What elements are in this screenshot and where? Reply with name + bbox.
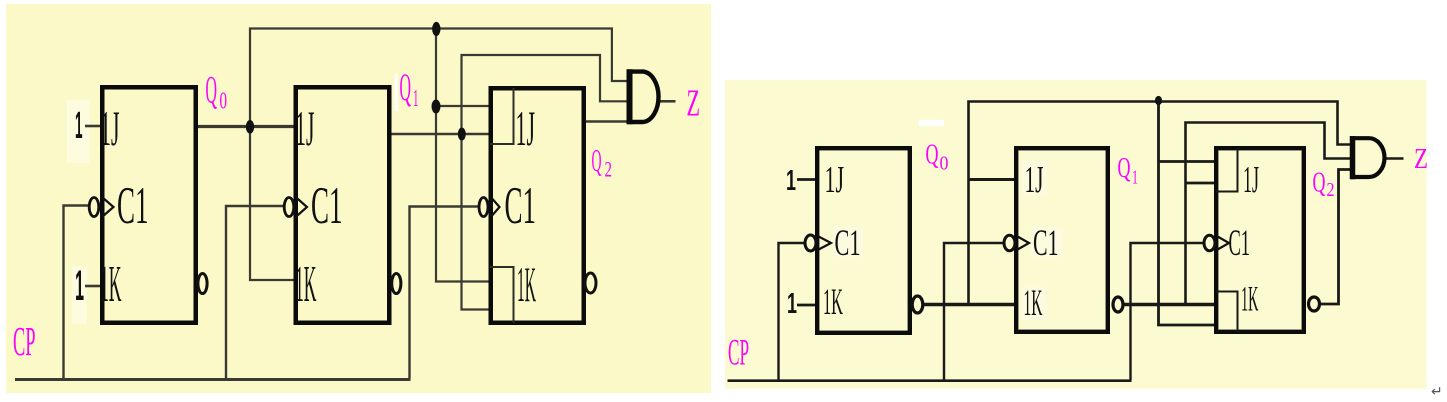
svg-text:1: 1 [413, 86, 419, 112]
svg-text:C1: C1 [505, 177, 537, 235]
junction dot on top bus at line A [432, 22, 440, 36]
svg-text:Q: Q [1118, 152, 1131, 184]
wire: vertical 2 branch to FF3 1J lower [1186, 182, 1217, 185]
wire: Q0bar FF1 bubble to FF2 1K [923, 303, 1016, 306]
wire: CP bottom rail right [728, 379, 1132, 382]
svg-text:Z: Z [687, 83, 701, 125]
svg-text:1J: 1J [100, 100, 120, 156]
svg-text:1: 1 [787, 288, 797, 320]
light patch behind U4 C1 [833, 227, 863, 257]
svg-text:1J: 1J [516, 100, 536, 156]
U1 inverted output bubble [198, 274, 207, 294]
svg-text:1J: 1J [1025, 159, 1044, 201]
svg-text:Q: Q [926, 139, 939, 171]
junction dot line A / 1J upper branch [432, 100, 441, 114]
wire: 1K constant input stub FF1 right [797, 304, 816, 307]
svg-text:1K: 1K [100, 256, 122, 313]
svg-text:C1: C1 [1033, 223, 1059, 264]
wire: vertical 1 branch to FF3 1J upper [1159, 160, 1217, 163]
wire: CP bottom rail [15, 378, 411, 381]
wire: AND gate output Z right [1386, 157, 1404, 160]
wire: vertical 2 from Q1bar up to second bus to AND input 2 [1186, 123, 1356, 305]
svg-text:C1: C1 [311, 177, 343, 235]
U6 1J input stub rectangle [1216, 148, 1238, 192]
U2 inverted output bubble [392, 274, 401, 294]
AND gate G1 body [630, 72, 659, 122]
U5 clock triangle [1017, 236, 1029, 250]
svg-text:1K: 1K [1024, 283, 1043, 324]
svg-text:C1: C1 [835, 223, 861, 264]
wire: CP riser to FF1 clock [64, 206, 90, 379]
svg-text:1K: 1K [823, 282, 843, 323]
junction dot at Q0 node [246, 120, 254, 134]
flip-flop U4 box [817, 148, 910, 333]
wire: line A branch to FF3 1J upper [436, 105, 490, 107]
svg-text:C1: C1 [1229, 223, 1251, 264]
light patch behind U5 C1 [1031, 227, 1063, 257]
wire: vertical 1 from top bus dot to FF3 1K lower [1159, 101, 1217, 325]
U5 clock bubble [1004, 235, 1015, 251]
wire: AND gate output Z [660, 100, 676, 103]
U5 inverted output bubble [1113, 297, 1123, 312]
light patch behind 1K constant input [72, 266, 87, 324]
svg-text:1K: 1K [295, 256, 317, 313]
white dash above Q0 right [919, 120, 944, 126]
wire: Q2bar FF3 bubble riser to AND input 3 [1320, 170, 1356, 305]
svg-text:0: 0 [940, 153, 949, 175]
AND gate G2 body [1353, 138, 1385, 177]
wire: Q0 riser, top bus, down to AND input 1 [250, 29, 628, 128]
U6 clock bubble [1204, 235, 1215, 251]
left panel background [6, 4, 711, 393]
U6 1K input stub rectangle [1216, 292, 1238, 333]
svg-text:Q: Q [206, 69, 218, 112]
U2 clock bubble [284, 198, 294, 217]
svg-text:1K: 1K [1241, 279, 1259, 319]
wire: CP riser to FF1 right clock [779, 243, 806, 380]
U4 clock triangle [818, 236, 831, 250]
svg-text:CP: CP [13, 318, 36, 364]
svg-text:Q: Q [1313, 167, 1326, 199]
svg-text:1J: 1J [295, 100, 315, 156]
flip-flop U3 box [491, 88, 584, 323]
svg-text:0: 0 [220, 89, 228, 115]
svg-text:2: 2 [1327, 179, 1335, 201]
wire: Q0 down branch to FF2 1K [250, 127, 294, 281]
svg-text:1: 1 [1132, 167, 1138, 189]
U3 1K input stub rectangle [490, 267, 514, 323]
light patch behind 1J constant input [67, 100, 90, 163]
U6 clock triangle [1217, 236, 1229, 250]
flip-flop U5 box [1016, 148, 1108, 332]
wire: Q0 output FF1 to FF2 1J [198, 125, 294, 128]
wire: 1K constant input stub FF1 [85, 285, 100, 288]
wire: 1J constant input stub FF1 [85, 125, 100, 128]
right panel background [725, 80, 1427, 389]
svg-text:1K: 1K [517, 256, 536, 312]
svg-text:↵: ↵ [1431, 385, 1443, 400]
wire: CP riser to FF2 right clock [944, 243, 1005, 380]
svg-text:1: 1 [75, 262, 84, 310]
wire: CP riser to FF3 right clock [1131, 243, 1205, 380]
wire: line B Q1 up to AND input 2 and down to FF3 1K lower [462, 55, 629, 310]
junction dot line B / Q1 wire [458, 128, 466, 141]
svg-text:Q: Q [400, 66, 412, 109]
wire: CP riser to FF2 clock [226, 206, 285, 379]
white dash left of Q1 label [395, 74, 398, 111]
wire: Q1 output FF2 to FF3 1J lower [392, 133, 491, 136]
wire: Q0bar riser and top bus to AND input 1 [969, 102, 1356, 305]
flip-flop U2 box [296, 87, 390, 323]
svg-text:2: 2 [605, 157, 613, 182]
svg-text:Z: Z [1414, 143, 1428, 175]
U4 inverted output bubble [912, 296, 923, 313]
light patch behind U5 1K [1021, 287, 1046, 320]
svg-text:C1: C1 [117, 177, 149, 235]
wire: Q2 output FF3 to AND input 3 [586, 120, 630, 123]
svg-text:1: 1 [75, 105, 83, 147]
wire: CP riser to FF3 clock [410, 207, 479, 379]
svg-text:1J: 1J [1243, 159, 1259, 201]
U1 clock bubble [89, 198, 99, 217]
U3 clock bubble [479, 198, 488, 217]
svg-text:1: 1 [786, 165, 796, 197]
U1 clock triangle [103, 198, 114, 217]
svg-text:Q: Q [592, 142, 602, 178]
AND gate G2 left edge [1350, 136, 1356, 179]
svg-text:CP: CP [728, 333, 749, 374]
U3 clock triangle [491, 198, 499, 217]
junction dot on right top bus [1155, 96, 1162, 105]
U3 inverted output bubble [585, 273, 596, 293]
wire: Q1bar FF2 bubble to FF3 1K upper [1123, 303, 1216, 306]
U6 inverted output bubble [1309, 297, 1320, 311]
AND gate G1 left edge [627, 69, 633, 124]
svg-text:1J: 1J [825, 159, 845, 201]
wire: Q0bar branch to FF2 1J [969, 178, 1017, 181]
wire: 1J constant input stub FF1 right [797, 178, 816, 181]
wire: line A from top bus down to FF3 1K upper [436, 29, 490, 282]
U3 1J input stub rectangle [490, 88, 514, 144]
light patch behind U5 1J [1022, 161, 1047, 195]
U2 clock triangle [296, 198, 307, 217]
U4 clock bubble [805, 235, 816, 251]
flip-flop U1 box [102, 87, 196, 323]
flip-flop U6 box [1216, 148, 1304, 332]
